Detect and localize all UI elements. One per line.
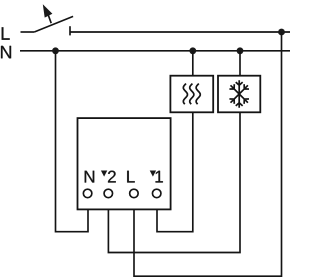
wire heater branch bottom to terminal 1 <box>157 112 193 231</box>
node L label <box>2 27 10 39</box>
switch S1 actuator arrow head <box>43 4 53 17</box>
junction dot N left <box>52 47 59 54</box>
switch S1 actuator arrow shaft <box>48 15 51 23</box>
junction dot N heater branch <box>189 47 196 54</box>
wire N bus <box>20 50 290 52</box>
cooler E2 snowflake <box>229 80 249 108</box>
heater E1 wave 3 <box>196 84 200 105</box>
wire L bus <box>70 31 290 33</box>
cooler load E2 box <box>218 76 260 113</box>
terminal N circle <box>83 189 92 198</box>
wire heater branch top <box>192 51 194 76</box>
wire cooler branch bottom to terminal 2 <box>108 112 240 252</box>
terminal label L <box>127 171 135 183</box>
junction dot N cooler branch <box>237 47 244 54</box>
terminal label N <box>85 171 95 183</box>
junction dot L right <box>278 29 285 36</box>
wire L feed left segment <box>21 31 35 33</box>
node N label <box>1 46 11 58</box>
wire N drop to terminal N <box>56 51 89 232</box>
switch S1 fixed contact bar <box>69 26 71 35</box>
terminal label arrow 2 <box>101 171 107 177</box>
switch S1 blade <box>34 16 73 32</box>
wire cooler branch top <box>239 51 241 76</box>
terminal L circle <box>130 189 139 198</box>
heater E1 wave 1 <box>183 84 187 105</box>
wire L branch right to terminal L <box>134 32 282 276</box>
terminal 1 circle <box>152 189 161 198</box>
terminal 2 circle <box>104 189 113 198</box>
heater E1 wave 2 <box>190 84 194 105</box>
thermostat U1 box <box>78 118 171 209</box>
terminal label arrow 1 <box>150 171 156 177</box>
heater load E1 box <box>170 76 213 113</box>
